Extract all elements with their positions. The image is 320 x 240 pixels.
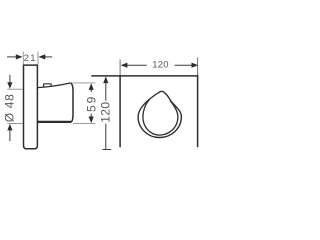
front view: handle inner contour	[143, 99, 178, 135]
dimension Ø48: lower leader with up arrow	[9, 129, 11, 141]
dimension 21: right leader with arrow	[44, 56, 52, 58]
side view: handle right edge	[71, 83, 73, 122]
front view: plate top edge with left extension	[91, 75, 198, 77]
dimension 120 left: lower segment	[105, 124, 107, 150]
dimension 59: bottom extension line	[73, 122, 95, 124]
svg-text:21: 21	[24, 53, 37, 64]
dimension 21: left extension line	[22, 52, 24, 65]
side view: handle bottom edge	[37, 121, 71, 123]
side view: handle top edge	[37, 83, 70, 88]
dimension 21: left leader with arrow	[7, 56, 16, 58]
dimension 59: line with down arrow at bottom	[90, 114, 92, 118]
svg-text:Ø 48: Ø 48	[3, 93, 17, 122]
svg-text:59: 59	[84, 95, 98, 112]
front view: plate left edge	[119, 75, 121, 147]
dimension 59: top extension line	[73, 82, 96, 84]
front view: plate right edge	[197, 75, 199, 147]
dimension 120 left: bottom tick	[102, 149, 111, 151]
front view: handle outer drop contour	[138, 91, 181, 137]
svg-text:120: 120	[98, 102, 112, 123]
dimension 21: right extension line	[37, 52, 39, 65]
dimension Ø48: top extension line	[7, 88, 22, 90]
side view: escutcheon plate	[24, 65, 38, 149]
dimension Ø48: upper leader with down arrow	[9, 75, 11, 84]
dimension 120 top: right arrow	[175, 64, 192, 66]
dimension 59: line with up arrow at top	[89, 83, 94, 90]
side view: select button	[44, 84, 52, 88]
dimension 120 top: left edge extension up	[119, 59, 121, 75]
dimension Ø48: bottom extension line	[7, 123, 22, 125]
svg-text:120: 120	[152, 60, 168, 71]
dimension 120 top: right edge extension up	[197, 58, 199, 76]
dimension 120 left: top arrow	[103, 76, 108, 83]
dimension 120 top: left arrow	[121, 63, 128, 68]
